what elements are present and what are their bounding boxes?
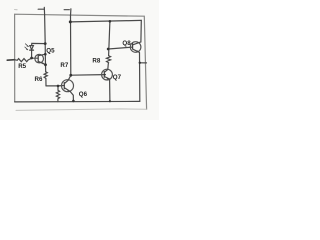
svg-text:Q8: Q8 [122,40,131,47]
svg-text:R7: R7 [60,62,68,69]
svg-text:Q6: Q6 [79,91,88,98]
svg-text:Q5: Q5 [46,47,55,54]
svg-text:R6: R6 [35,76,43,83]
svg-text:Q7: Q7 [113,74,122,81]
svg-text:R8: R8 [92,58,100,65]
svg-text:R5: R5 [18,63,26,70]
